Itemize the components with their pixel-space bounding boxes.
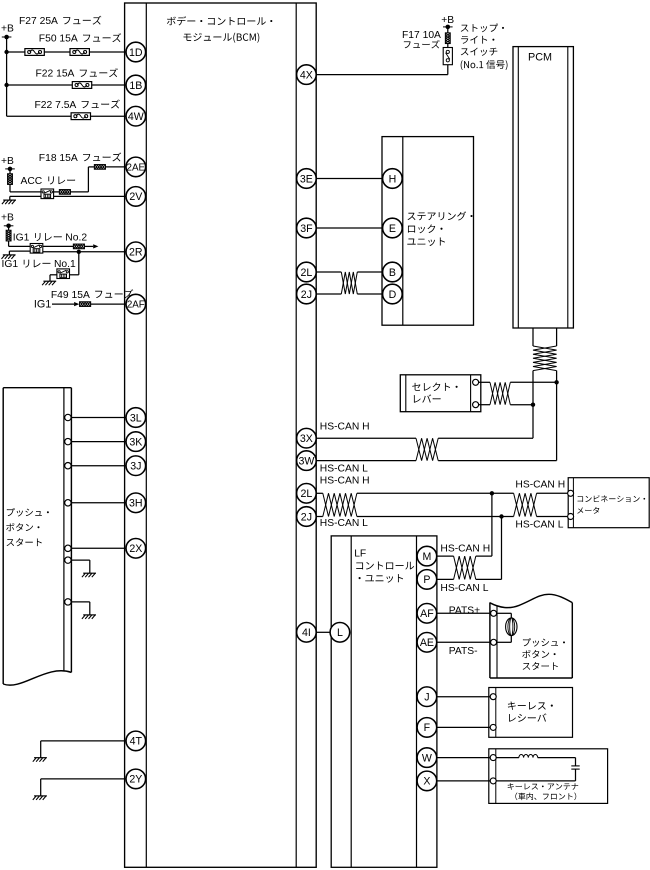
ground (2Y) (33, 796, 47, 800)
pin 2R (126, 242, 146, 262)
svg-text:2AE: 2AE (127, 162, 146, 173)
svg-text:PATS-: PATS- (449, 646, 478, 657)
svg-text:3K: 3K (129, 436, 142, 448)
fuse F27 25A (25, 49, 44, 56)
label F27 25A fuse (19, 16, 101, 27)
twisted pair PCM CAN (533, 346, 557, 371)
wire CAN L vertical (556, 371, 558, 461)
pin X (417, 771, 437, 791)
twisted pair 2L/2J meter right (514, 493, 537, 516)
label stop light switch (461, 24, 508, 70)
terminal pbs ground 2 (65, 599, 71, 605)
wire W (437, 757, 490, 759)
wire pbs ground 1 (71, 560, 90, 573)
power +B node (ACC) (5, 167, 15, 172)
pin 2AE (126, 157, 146, 177)
inductor antenna coil (519, 754, 538, 757)
svg-text:2J: 2J (301, 511, 312, 523)
terminal pbs 3L (65, 414, 71, 420)
svg-text:HS-CAN L: HS-CAN L (440, 583, 488, 594)
svg-text:2L: 2L (301, 267, 313, 279)
wire relay to fuse (54, 191, 60, 193)
PCM box (513, 47, 573, 328)
label IG1 relay No.1 (2, 259, 77, 270)
pin 3E (297, 169, 317, 189)
wire antenna internal W (496, 757, 519, 759)
label F18 15A fuse (39, 153, 121, 164)
BCM body control module box (125, 3, 317, 867)
label F22 15A fuse (36, 68, 118, 79)
wire PCM CAN L drop (556, 328, 558, 346)
node junction LF CAN L (499, 514, 503, 518)
terminal pbs 3K (65, 438, 71, 444)
terminal pbs PATS- (491, 639, 497, 645)
pin M (417, 546, 437, 566)
ground (IG1 relay No.1) (42, 281, 56, 285)
svg-text:1D: 1D (129, 47, 143, 59)
pin E (383, 218, 403, 238)
svg-text:+B: +B (1, 156, 14, 167)
pin 3X (297, 428, 317, 448)
wire fuse to arrow (84, 245, 93, 247)
svg-text:P: P (423, 574, 430, 586)
wire to pin 1B (7, 84, 126, 86)
wire tap to relay No.1 (70, 252, 79, 275)
label BCM title (167, 16, 272, 42)
pin 4W (126, 106, 146, 126)
svg-text:ACC: ACC (21, 176, 43, 187)
pin 2J (297, 507, 317, 527)
terminal pbs 3J (65, 463, 71, 469)
wire coil to capacitor (538, 758, 576, 766)
svg-text:HS-CAN L: HS-CAN L (515, 520, 563, 531)
wire 2L HS-CAN H (316, 492, 567, 494)
twisted pair 3X/3W (416, 438, 438, 460)
terminal antenna W (490, 755, 496, 761)
fuse F17 10A (vertical) (445, 33, 450, 44)
pin 3H (126, 493, 146, 513)
pin 2Y (126, 769, 146, 789)
node junction CAN H select (531, 403, 535, 407)
wire M HS-CAN H (437, 555, 492, 557)
pin H (383, 169, 403, 189)
wire 3W HS-CAN L (316, 460, 556, 462)
svg-text:3E: 3E (300, 173, 313, 185)
pin 4I (297, 623, 317, 643)
pin 4X (297, 65, 317, 85)
twisted pair 2L/2J (341, 272, 357, 294)
svg-text:PATS+: PATS+ (449, 605, 480, 616)
wire pbs to pin 3L (71, 417, 126, 419)
svg-text:2AF: 2AF (127, 300, 145, 311)
wire capacitor to X (496, 769, 575, 781)
wire 4I to L (316, 631, 330, 633)
svg-text:2L: 2L (301, 488, 313, 500)
node junction CAN L select (554, 380, 558, 384)
fuse F22 7.5A (71, 113, 90, 120)
ground (push button start 1) (82, 573, 96, 577)
svg-text:LF: LF (354, 549, 366, 560)
svg-text:H: H (389, 173, 397, 185)
wire LF CAN H vertical (491, 493, 493, 556)
wire +B to fuse (9, 169, 11, 174)
label keyless receiver (508, 701, 553, 721)
fuse ACC output (59, 190, 70, 195)
combination meter box (568, 478, 649, 528)
wire relay No.1 coil to ground (50, 275, 57, 281)
label push button start (6, 508, 49, 546)
label select lever (412, 383, 457, 403)
capacitor antenna (571, 766, 579, 769)
svg-text:2Y: 2Y (129, 774, 142, 786)
wire AE PATS- (437, 641, 491, 643)
twisted pair 2L/2J meter left (323, 493, 357, 516)
pin 2X (126, 539, 146, 559)
svg-text:F50 15A: F50 15A (39, 34, 78, 45)
node junction 1B row (4, 83, 8, 87)
power +B node (stop light) (443, 25, 453, 30)
BCM left connector strip (145, 3, 147, 867)
label F22 7.5A fuse (35, 100, 120, 111)
wire relay coil to ground (10, 196, 41, 200)
wire fuse to relay No.2 (9, 241, 31, 247)
pin 3J (126, 456, 146, 476)
fuse IG1 feed (vertical) (6, 230, 11, 241)
wire +B to fuse (8, 226, 10, 231)
fuse F18 15A (94, 165, 105, 170)
steering lock unit box (382, 137, 474, 326)
label F49 15A fuse (51, 289, 133, 300)
svg-text:PCM: PCM (528, 52, 552, 64)
arrow IG1 into fuse (74, 302, 79, 306)
fuse ACC feed (vertical) (8, 174, 13, 185)
wire IG1 to arrow (52, 303, 74, 305)
svg-text:3W: 3W (298, 455, 314, 467)
svg-text:4I: 4I (302, 627, 311, 639)
wire 3E to H (316, 178, 382, 180)
power +B node (top-left) (2, 35, 12, 40)
ground (push button start 2) (82, 615, 96, 619)
wire F (437, 726, 490, 728)
svg-text:3H: 3H (129, 498, 143, 510)
fuse F22 15A (72, 82, 91, 89)
label LF control unit (354, 549, 414, 583)
label IG1 relay No.2 (13, 233, 88, 244)
pin 3L (126, 408, 146, 428)
label F17 10A fuse (402, 30, 441, 48)
pin 1B (126, 75, 146, 95)
terminal meter CAN H (568, 490, 574, 496)
pin 3F (297, 218, 317, 238)
svg-text:D: D (389, 289, 397, 301)
svg-text:4X: 4X (300, 69, 313, 81)
fuse F50 15A (70, 49, 89, 56)
svg-text:3J: 3J (130, 461, 141, 473)
node junction LF CAN H (490, 491, 494, 495)
twisted pair M/P (454, 556, 476, 579)
wire pbs to pin 2X (71, 547, 126, 549)
arrow IG1 feed continuation (93, 244, 98, 248)
pin 2J (297, 284, 317, 304)
pin W (417, 748, 437, 768)
terminal select lever 1 (473, 379, 479, 385)
node junction 1D row (4, 50, 8, 54)
relay IG1 No.1 (57, 269, 70, 279)
svg-text:W: W (422, 752, 432, 764)
svg-text:4T: 4T (130, 736, 143, 748)
svg-text:2X: 2X (129, 543, 142, 555)
terminal pbs PATS+ (491, 610, 497, 616)
svg-text:HS-CAN H: HS-CAN H (440, 544, 490, 555)
wire PATS coil bottom (497, 635, 512, 642)
wire PCM CAN H drop (532, 328, 534, 346)
fuse IG1 No.2 output (73, 244, 84, 249)
ground (ACC relay) (2, 200, 16, 204)
terminal receiver F (490, 724, 496, 730)
pin D (383, 284, 403, 304)
wire fuse to pin 2AE (70, 167, 94, 192)
pin 2L (297, 262, 317, 282)
svg-text:M: M (422, 551, 431, 563)
svg-text:2R: 2R (129, 247, 143, 259)
wire switch to fuse (447, 44, 449, 48)
svg-text:IG1: IG1 (13, 233, 30, 244)
wire pin 2Y to ground (41, 779, 126, 796)
terminal receiver J (490, 694, 496, 700)
svg-text:HS-CAN H: HS-CAN H (320, 422, 370, 433)
BCM right connector strip (295, 3, 297, 867)
wire select lever CAN H (479, 404, 533, 406)
relay ACC (41, 189, 54, 199)
svg-text:F17 10A: F17 10A (402, 30, 441, 41)
pin F (417, 718, 437, 738)
pin P (417, 570, 437, 590)
svg-text:3F: 3F (300, 223, 313, 235)
relay IG1 No.2 (30, 244, 43, 254)
svg-text:4W: 4W (128, 111, 144, 123)
terminal pbs 2X (65, 545, 71, 551)
svg-text:1B: 1B (129, 80, 142, 92)
pin L (330, 623, 350, 643)
pin 1D (126, 42, 146, 62)
svg-text:L: L (337, 627, 343, 639)
svg-text:+B: +B (1, 24, 14, 35)
svg-text:3X: 3X (300, 433, 313, 445)
wire fuse to +B (447, 27, 449, 33)
keyless receiver box (489, 688, 573, 738)
wire pbs ground 2 (71, 602, 90, 615)
terminal pbs ground 1 (65, 557, 71, 563)
svg-text:J: J (424, 692, 429, 704)
wire fuse to relay (10, 184, 41, 192)
svg-text:No.2: No.2 (65, 233, 87, 244)
svg-text:AE: AE (420, 637, 434, 649)
svg-text:F49 15A: F49 15A (51, 290, 90, 301)
wire 2J to D (316, 293, 382, 295)
pin AF (417, 604, 437, 624)
select lever box (400, 375, 481, 412)
wire relay No.2 coil to pin 2R (43, 251, 126, 253)
ground (4T) (33, 758, 47, 762)
svg-text:F18 15A: F18 15A (39, 153, 78, 164)
wire P HS-CAN L (437, 578, 502, 580)
pin 3K (126, 432, 146, 452)
fuse F49 15A (80, 302, 91, 307)
svg-text:3L: 3L (130, 412, 142, 424)
svg-text:HS-CAN L: HS-CAN L (320, 464, 368, 475)
push button start antenna box (490, 594, 572, 678)
wire to pin 4W (7, 115, 126, 117)
ground (IG1 relay No.2) (2, 255, 16, 259)
wire +B vertical bus (6, 37, 8, 116)
svg-text:E: E (389, 223, 396, 235)
pin 3W (297, 451, 317, 471)
svg-text:F: F (424, 722, 431, 734)
svg-text:AF: AF (420, 608, 434, 620)
svg-text:2V: 2V (129, 191, 143, 203)
wire 3F to E (316, 227, 382, 229)
label F50 15A fuse (39, 33, 121, 44)
svg-text:B: B (389, 267, 396, 279)
svg-text:HS-CAN L: HS-CAN L (320, 518, 368, 529)
wire X (437, 780, 490, 782)
wire AF PATS+ (437, 612, 491, 614)
wire to pin 2AE (105, 166, 126, 168)
wire to pin 2AF (91, 303, 126, 305)
wire 2L to B (316, 271, 382, 273)
wire 2J HS-CAN L (316, 516, 567, 518)
svg-text:HS-CAN H: HS-CAN H (320, 476, 370, 487)
svg-text:2J: 2J (301, 289, 312, 301)
terminal meter CAN L (568, 514, 574, 520)
label combination meter (577, 495, 645, 514)
svg-text:+B: +B (1, 213, 14, 224)
svg-text:+B: +B (441, 15, 454, 26)
wire pin 4X to switch (316, 65, 448, 75)
label ACC relay (21, 176, 76, 187)
wire select lever CAN L (479, 381, 557, 383)
wire pbs to pin 3K (71, 441, 126, 443)
label steering lock unit (407, 211, 472, 246)
wire LF CAN L vertical (501, 517, 503, 580)
power +B node (IG1) (4, 224, 14, 229)
wire pbs to pin 3J (71, 465, 126, 467)
label push button start (522, 638, 565, 670)
wire pbs to pin 3H (71, 502, 126, 504)
pin AE (417, 633, 437, 653)
svg-text:HS-CAN H: HS-CAN H (515, 479, 565, 490)
pin 2L (297, 484, 317, 504)
svg-text:F27 25A: F27 25A (19, 16, 58, 27)
pin J (417, 687, 437, 707)
wire relay switch output (43, 245, 74, 247)
svg-text:F22 15A: F22 15A (36, 69, 75, 80)
wire relay coil to pin 2V (54, 195, 126, 197)
svg-text:IG1: IG1 (2, 259, 19, 270)
wire pin 4T to ground (41, 741, 126, 758)
LF control unit box (331, 536, 437, 867)
wire PATS coil top (497, 613, 512, 618)
label keyless antenna (508, 783, 579, 800)
svg-text:IG1: IG1 (34, 299, 51, 311)
pin B (383, 262, 403, 282)
wire relay No.2 coil to ground (9, 251, 30, 255)
wire J (437, 696, 490, 698)
pin 2AF (126, 294, 146, 314)
wire 3X HS-CAN H (316, 437, 533, 439)
svg-text:F22 7.5A: F22 7.5A (35, 100, 77, 111)
switch stop light (443, 48, 452, 65)
pin 2V (126, 187, 146, 207)
wire CAN H vertical (532, 371, 534, 439)
node junction IG1 No.1 tap (77, 250, 81, 254)
push button start switch box (3, 388, 71, 685)
pin 4T (126, 731, 146, 751)
wire to pin 1D (7, 51, 126, 53)
terminal antenna X (490, 778, 496, 784)
keyless antenna box (489, 749, 608, 804)
twisted pair select lever (490, 382, 510, 404)
terminal select lever 2 (473, 402, 479, 408)
terminal pbs 3H (65, 500, 71, 506)
inductor PATS antenna coil (506, 618, 517, 636)
svg-text:X: X (423, 776, 430, 788)
